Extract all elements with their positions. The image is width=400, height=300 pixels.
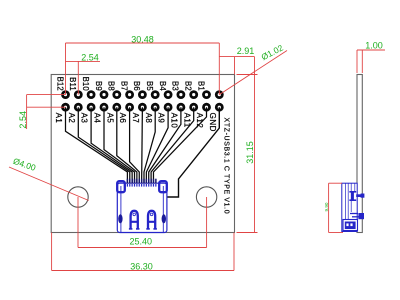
connector shell pad right [162, 214, 166, 223]
svg-text:A6: A6 [118, 113, 127, 124]
dimension 2.54 left (row pitch) [18, 95, 66, 129]
dimension 2.54 top (pin pitch) [66, 53, 101, 95]
pad B11 [68, 77, 83, 99]
svg-text:Ø1.02: Ø1.02 [260, 42, 285, 62]
dimension 30.48 top [66, 34, 220, 94]
svg-text:2.54: 2.54 [18, 111, 28, 129]
pad A9 [157, 103, 173, 124]
pad A4 [93, 103, 109, 124]
connector leg right (A shape) [146, 211, 157, 229]
pad B5 [145, 81, 160, 99]
mounting hole right (4.00 dia) [196, 187, 216, 207]
svg-text:36.30: 36.30 [130, 261, 153, 271]
dimension 2.91 top right [219, 46, 254, 75]
svg-text:XTZ-USB3.1 C TYPE V1.0: XTZ-USB3.1 C TYPE V1.0 [222, 118, 229, 215]
side view solder tail box [343, 220, 358, 231]
svg-text:2.54: 2.54 [81, 53, 99, 63]
svg-text:B8: B8 [107, 81, 116, 91]
pad A11 [182, 103, 198, 128]
connector retention clip right [159, 181, 167, 192]
pad B2 [184, 81, 199, 99]
svg-text:B3: B3 [171, 81, 180, 91]
svg-text:25.40: 25.40 [130, 237, 153, 247]
wire trace A2 to connector [78, 107, 129, 183]
svg-text:B10: B10 [81, 77, 90, 92]
dimension 36.30 bottom [52, 233, 234, 272]
svg-text:A3: A3 [80, 113, 89, 124]
svg-text:B5: B5 [145, 81, 154, 91]
dimension leader 1.02 hole dia [219, 42, 287, 94]
pad B12 [55, 77, 70, 99]
wire trace A7 to connector [141, 107, 144, 183]
svg-text:GND: GND [208, 113, 217, 132]
connector leg left (A shape) [129, 211, 140, 229]
svg-text:A7: A7 [131, 113, 140, 124]
svg-text:B7: B7 [119, 81, 128, 91]
side view top retention clip through board [349, 192, 364, 201]
dimension side connector height [324, 183, 343, 232]
svg-text:Ø4.00: Ø4.00 [12, 156, 37, 173]
USB Type-C connector J1 (top view) body shell [117, 183, 167, 232]
pad B1 [196, 81, 211, 99]
connector shell pad left [118, 214, 122, 223]
svg-text:9.90: 9.90 [324, 202, 329, 211]
wire trace A12 to connector [153, 107, 206, 183]
pad A7 [131, 103, 147, 124]
connector shell inner walls [121, 186, 163, 233]
side view lower clip through board [350, 213, 364, 219]
svg-text:A5: A5 [105, 113, 114, 124]
svg-text:2.91: 2.91 [237, 46, 255, 56]
svg-text:B4: B4 [158, 81, 167, 91]
wire trace A6 to connector [130, 107, 140, 183]
pad B8 [107, 81, 122, 99]
svg-text:A8: A8 [144, 113, 153, 124]
pad A6 [118, 103, 134, 124]
svg-text:B12: B12 [55, 77, 64, 91]
wire trace A8 to connector [144, 107, 155, 183]
side view connector inner lines [346, 183, 355, 231]
wire trace GND to connector shell [167, 107, 219, 197]
wire trace A5 to connector [117, 107, 137, 183]
svg-text:B1: B1 [196, 81, 205, 91]
wire trace A1 to connector [66, 107, 128, 183]
wire trace A10 to connector [149, 107, 181, 183]
pad A10 [170, 103, 186, 129]
svg-text:A2: A2 [67, 113, 76, 124]
svg-text:A4: A4 [93, 113, 102, 124]
side view PCB edge [357, 75, 362, 233]
board outline (top view PCB 36.30 x 31.15) [51, 75, 234, 233]
pad B7 [119, 81, 134, 99]
svg-text:A1: A1 [54, 113, 63, 124]
wire trace A4 to connector [104, 107, 135, 183]
pad A3 [80, 103, 96, 124]
pad A12 [195, 103, 211, 129]
svg-text:B9: B9 [94, 81, 103, 91]
svg-text:1.00: 1.00 [365, 40, 383, 50]
side view connector body [342, 183, 357, 231]
svg-text:B6: B6 [132, 81, 141, 91]
mounting hole left (4.00 dia) [68, 187, 88, 207]
pad A5 [105, 103, 121, 124]
svg-text:B11: B11 [68, 77, 77, 91]
pad GND [208, 103, 224, 132]
svg-text:A9: A9 [157, 113, 166, 124]
pad B6 [132, 81, 147, 99]
svg-text:A10: A10 [170, 113, 179, 129]
pad A8 [144, 103, 160, 124]
wire trace A11 to connector [151, 107, 194, 183]
connector retention clip left [117, 181, 125, 192]
svg-text:30.48: 30.48 [131, 34, 154, 44]
pad A1 [54, 103, 70, 124]
dimension 25.40 bottom [78, 197, 207, 248]
dimension 1.00 board thickness [357, 40, 385, 73]
pad A2 [67, 103, 83, 124]
dimension 31.15 right [237, 57, 258, 233]
pad B3 [171, 81, 186, 99]
wire trace A9 to connector [146, 107, 168, 183]
pad B9 [94, 81, 109, 99]
pad B4 [158, 81, 173, 99]
dimension leader 4.00 mounting hole [9, 156, 89, 201]
svg-text:B2: B2 [184, 81, 193, 91]
wire trace A3 to connector [91, 107, 132, 183]
svg-text:31.15: 31.15 [245, 141, 255, 164]
connector contact pins (24-pin row) [127, 179, 157, 187]
pad B-row pin 13 [215, 90, 224, 99]
pad B10 [81, 77, 96, 99]
